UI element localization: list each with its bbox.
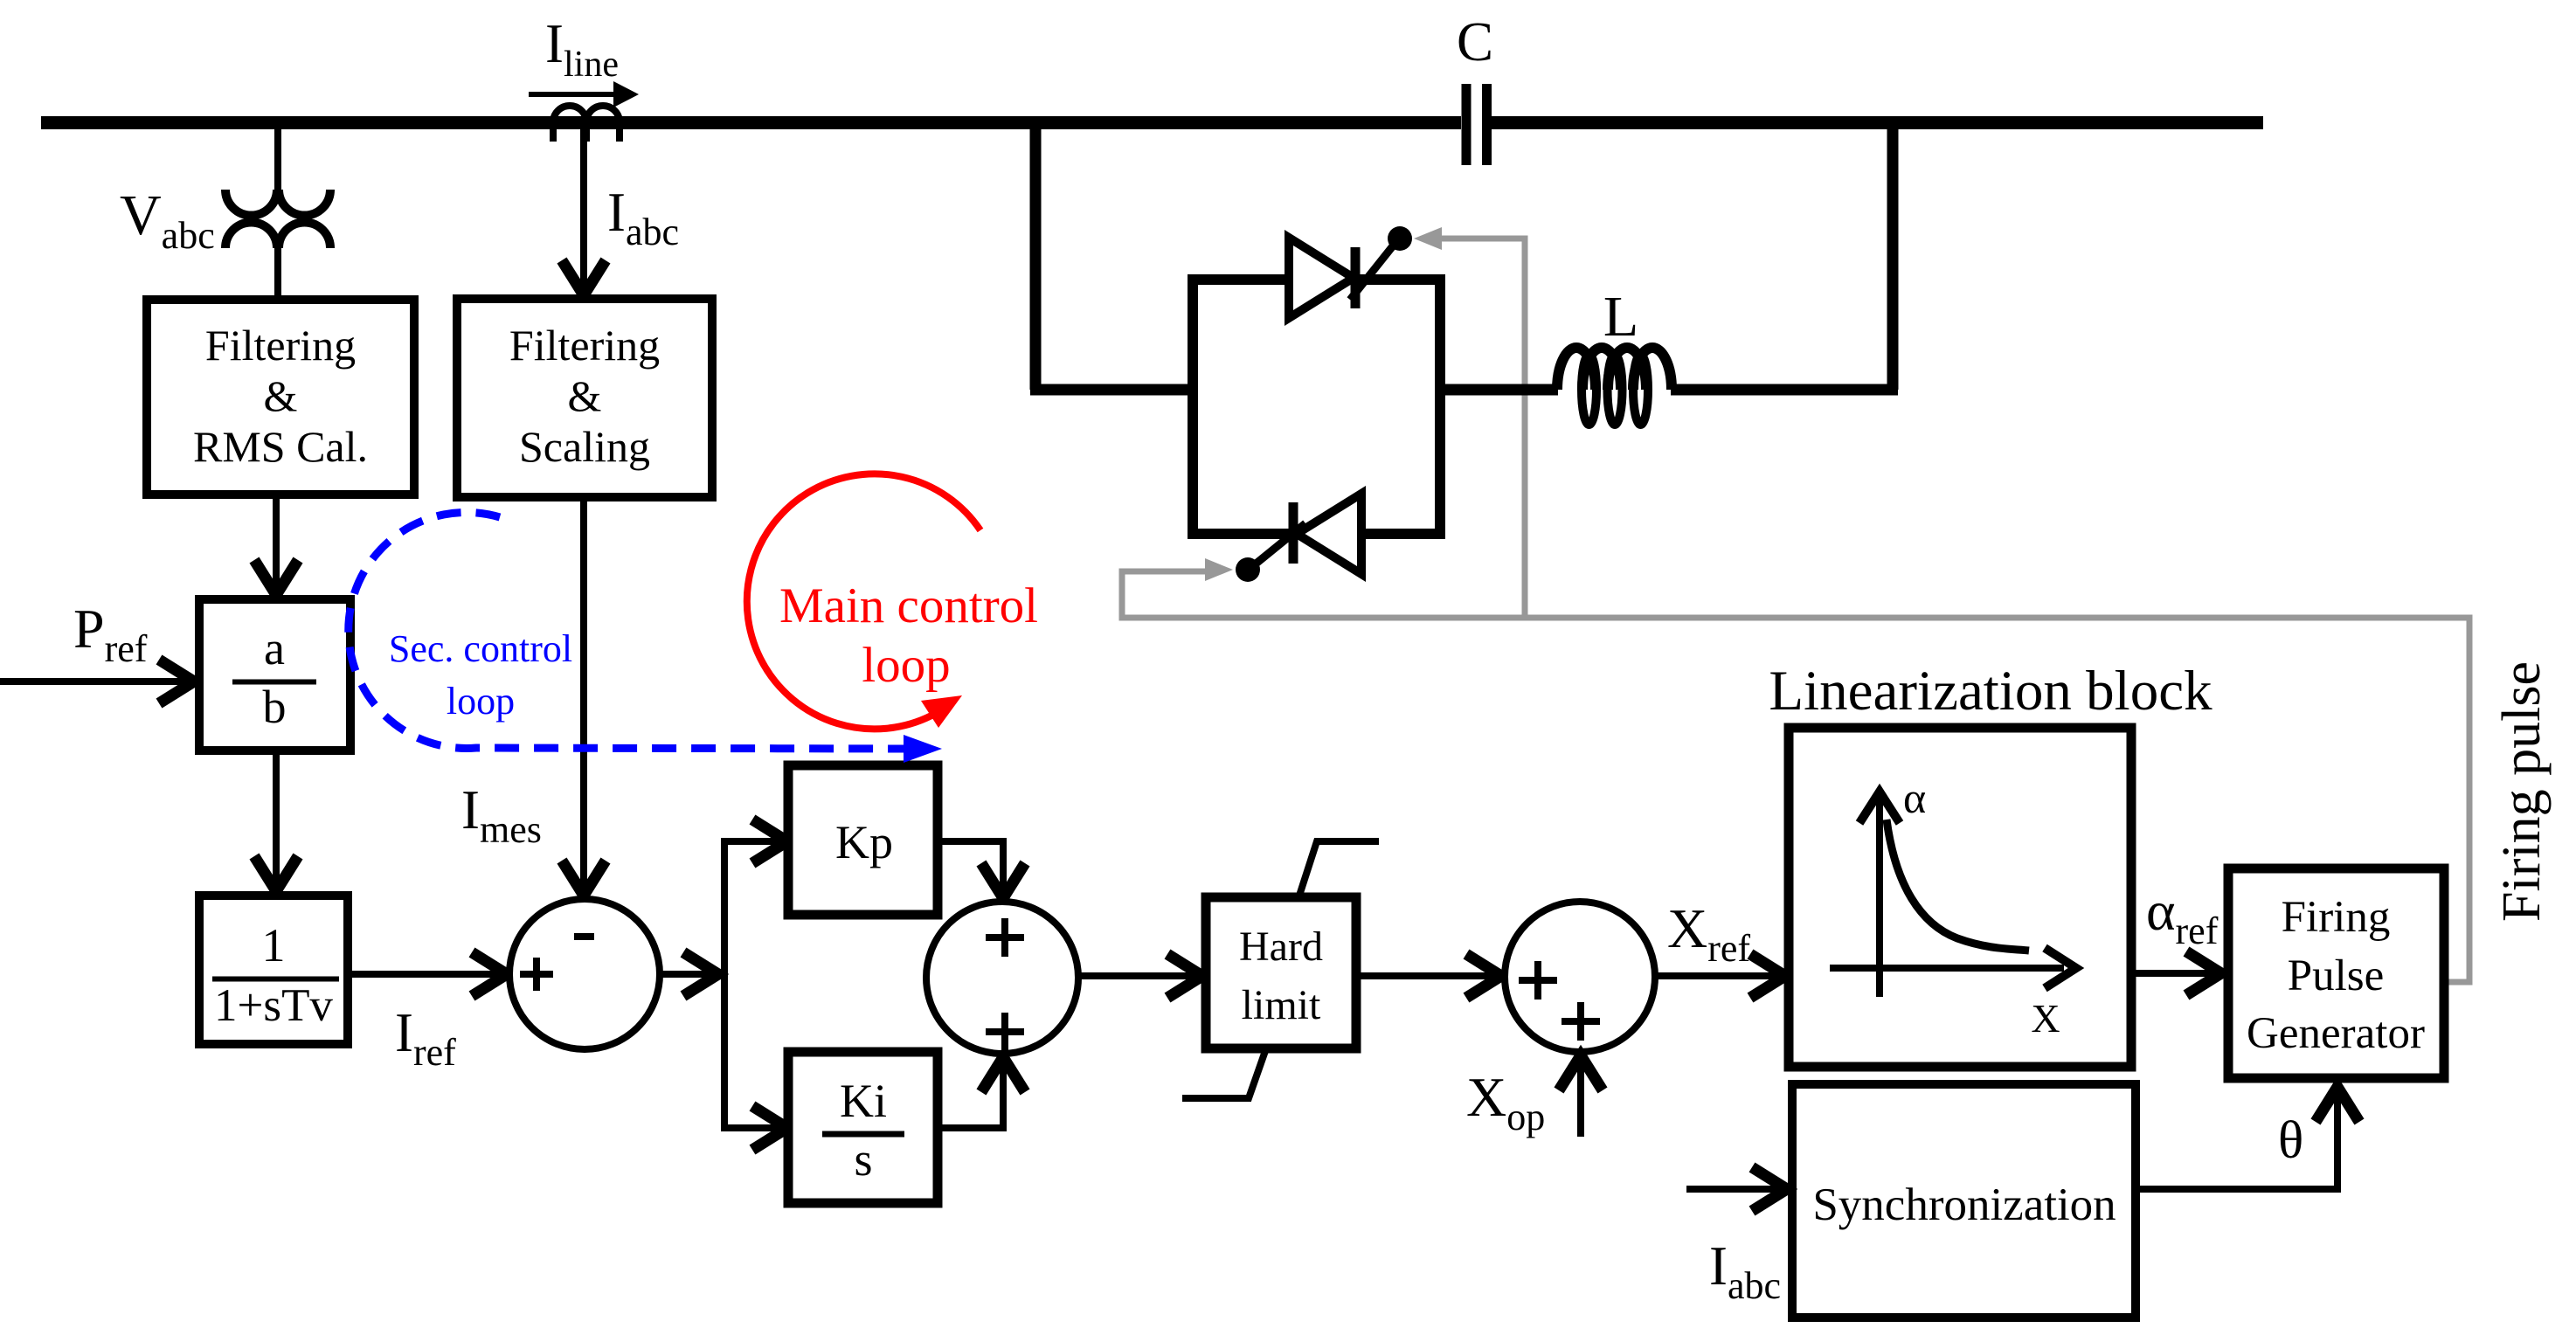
label Sec. control loop (389, 627, 572, 723)
saturation symbol bottom of Hard limit (1182, 1048, 1266, 1098)
wire PI branch vertical (721, 841, 728, 1128)
thyristor T1 top (1289, 226, 1412, 318)
wire thyristor box to inductor (1440, 384, 1558, 396)
wire transformer to Filtering box (274, 247, 281, 301)
svg-text:Synchronization: Synchronization (1812, 1179, 2116, 1230)
svg-text:α: α (1903, 773, 1926, 822)
svg-text:Filtering: Filtering (509, 321, 660, 370)
wire theta from Synchronization to Firing Pulse Generator (2136, 1087, 2359, 1189)
wire V_abc tap from bus (274, 128, 281, 190)
svg-text:1+sTv: 1+sTv (214, 980, 333, 1031)
transformer PT symbol V_abc (225, 190, 330, 248)
svg-text:limit: limit (1242, 982, 1321, 1028)
power branch riser to bus (1887, 129, 1899, 390)
blue arrowhead (904, 735, 942, 763)
summing junction 1 (509, 899, 660, 1049)
wire bus line right segment (1492, 116, 2263, 129)
svg-text:X: X (2031, 996, 2060, 1041)
svg-text:Iabc: Iabc (1709, 1235, 1781, 1307)
arrow input into Synchronization (1686, 1167, 1787, 1211)
svg-text:Iline: Iline (545, 13, 619, 85)
wire bus line left segment (41, 116, 1461, 129)
arrow P_ref into a/b (0, 660, 194, 703)
svg-text:Scaling: Scaling (519, 422, 650, 471)
grey arrow to thyristor T2 gate (1205, 558, 1233, 581)
svg-text:Xop: Xop (1466, 1066, 1545, 1138)
wire Kp output to summing circle 2 (938, 841, 1025, 898)
svg-text:&: & (264, 371, 298, 420)
svg-text:s: s (854, 1133, 872, 1186)
svg-text:b: b (263, 681, 287, 733)
block Synchronization (1792, 1084, 2136, 1318)
svg-text:&: & (568, 371, 602, 420)
svg-text:Iref: Iref (395, 1002, 456, 1074)
svg-text:Sec. control: Sec. control (389, 627, 572, 670)
svg-text:αref: αref (2146, 880, 2219, 952)
wire summing circle 1 to PI branch (660, 952, 718, 996)
thyristor valve frame right (1435, 274, 1445, 539)
svg-text:loop: loop (447, 680, 515, 723)
wire X_ref to Linearization block (1655, 954, 1785, 998)
thyristor valve frame bottom segments (1188, 529, 1445, 539)
svg-text:a: a (264, 622, 285, 674)
block divider a/b (199, 599, 350, 751)
wire I_mes from Filtering & Scaling to summing circle 1 (562, 497, 606, 896)
svg-text:RMS Cal.: RMS Cal. (193, 422, 368, 471)
red main control loop arc (747, 474, 980, 729)
svg-text:Iabc: Iabc (607, 182, 679, 253)
wire into Ki/s (721, 1106, 787, 1150)
block Hard limit (1206, 897, 1356, 1048)
thyristor T2 bottom (1236, 494, 1361, 582)
svg-text:Filtering: Filtering (205, 321, 356, 370)
wire Hard limit to summing circle 3 (1356, 954, 1501, 998)
svg-text:Main control: Main control (779, 578, 1038, 633)
svg-text:Pref: Pref (73, 598, 148, 670)
block Linearization (1789, 728, 2131, 1067)
red arrowhead (921, 695, 962, 728)
blue secondary control loop dashed arc (349, 512, 909, 749)
block gain Kp (788, 765, 938, 915)
axis X horizontal (1830, 948, 2076, 988)
wire Ki/s output to summing circle 2 (938, 1057, 1025, 1128)
block Filtering & Scaling (457, 299, 712, 497)
grey branch to thyristor T1 gate (1440, 239, 1525, 618)
arrow I_line direction (529, 81, 639, 107)
saturation symbol top of Hard limit (1298, 841, 1379, 898)
inductor L coil (1557, 348, 1672, 425)
block Filtering & RMS Cal. (147, 300, 414, 495)
thyristor valve frame top segments (1188, 274, 1445, 285)
svg-text:Vabc: Vabc (120, 183, 215, 257)
svg-text:L: L (1603, 285, 1638, 349)
block transfer 1/(1+sTv) (199, 896, 348, 1044)
thyristor valve frame left (1188, 274, 1198, 539)
svg-text:Linearization block: Linearization block (1769, 660, 2212, 723)
summing junction 2 (926, 902, 1078, 1054)
svg-text:C: C (1457, 11, 1493, 73)
svg-text:Hard: Hard (1239, 923, 1323, 970)
block integrator Ki/s (788, 1052, 938, 1203)
wire I_ref into summing circle 1 (348, 952, 507, 996)
wire Filtering box to a/b with arrow (254, 495, 298, 595)
wire into Kp (721, 820, 787, 863)
svg-text:Ki: Ki (840, 1075, 887, 1127)
wire I_abc tap with arrow into Filtering & Scaling (562, 129, 606, 295)
wire summing circle 2 to Hard limit (1078, 954, 1202, 998)
grey arrow to thyristor T1 gate (1414, 227, 1442, 250)
svg-text:Firing: Firing (2282, 893, 2391, 942)
wire inductor to bus riser (1671, 384, 1898, 396)
current transformer CT on bus (553, 106, 620, 142)
grey firing pulse feedback main path (1122, 571, 2469, 982)
svg-text:Firing pulse: Firing pulse (2492, 661, 2552, 922)
power branch drop from bus (1030, 129, 1042, 390)
svg-text:loop: loop (862, 638, 950, 693)
svg-text:θ: θ (2278, 1111, 2303, 1170)
svg-text:Xref: Xref (1667, 897, 1750, 970)
wire alpha_ref to Firing Pulse Generator (2131, 951, 2221, 995)
axis alpha vertical (1859, 792, 1900, 997)
wire a/b to 1/(1+sTv) with arrow (254, 751, 298, 891)
svg-text:1: 1 (262, 919, 286, 972)
capacitor C plates (1466, 84, 1487, 165)
label Main control loop (779, 578, 1038, 693)
block Firing Pulse Generator (2228, 868, 2444, 1078)
svg-text:Kp: Kp (835, 816, 893, 868)
summing junction 3 (1505, 902, 1655, 1052)
svg-text:Generator: Generator (2247, 1009, 2425, 1058)
power branch horizontal to thyristor box (1030, 384, 1193, 396)
linearization curve (1887, 820, 2029, 951)
svg-text:Pulse: Pulse (2288, 951, 2385, 1000)
arrow X_op into summing circle 3 (1559, 1055, 1603, 1137)
svg-text:Imes: Imes (461, 779, 542, 851)
